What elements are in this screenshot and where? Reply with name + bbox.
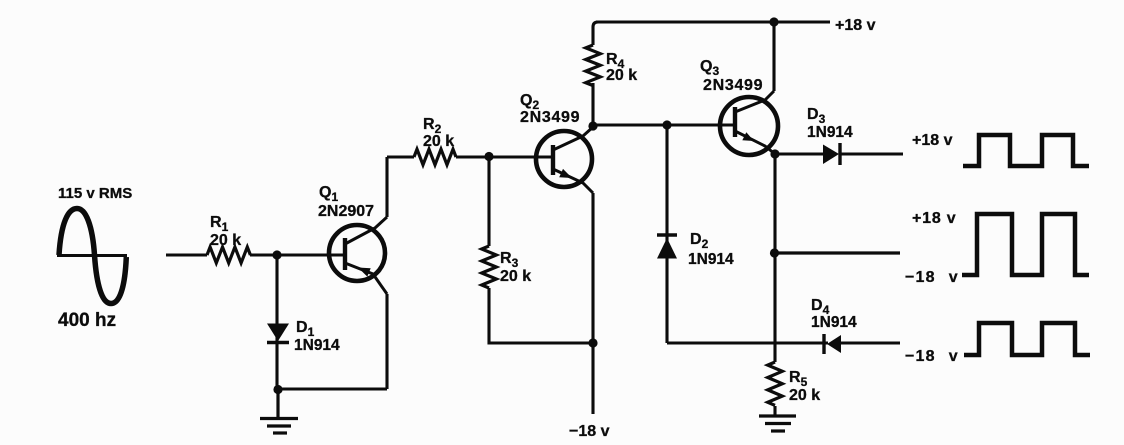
waveform output 3 — [964, 323, 1090, 355]
wire R1 to node A — [250, 253, 277, 256]
wire node G down to R5 — [773, 253, 776, 362]
ground symbol below R5 — [759, 416, 796, 431]
svg-text:20 k: 20 k — [500, 268, 531, 285]
transistor Q1 (2N2907 PNP) — [329, 217, 387, 294]
svg-text:2N3499: 2N3499 — [703, 77, 763, 94]
svg-text:20 k: 20 k — [789, 387, 820, 404]
svg-text:20 k: 20 k — [423, 133, 454, 150]
svg-text:2N3499: 2N3499 — [520, 109, 580, 126]
diode D3 — [823, 143, 840, 165]
node D junction dot — [588, 121, 597, 130]
rail junction dot — [769, 17, 778, 26]
wire node B to Q2 base — [489, 155, 553, 158]
node G junction dot (middle output) — [770, 248, 779, 257]
AC source sine wave symbol — [57, 209, 127, 304]
wire Q1 emitter to ground node — [278, 387, 387, 390]
resistor R1 — [207, 247, 250, 263]
resistor R2 — [414, 149, 456, 165]
node E junction dot — [662, 120, 671, 129]
+18v rail wire — [596, 20, 830, 23]
node B junction dot — [484, 152, 493, 161]
resistor R4 — [586, 45, 601, 86]
svg-text:1N914: 1N914 — [811, 314, 857, 331]
svg-text:1N914: 1N914 — [807, 124, 853, 141]
svg-text:D2: D2 — [690, 231, 709, 251]
svg-text:+18 v: +18 v — [835, 17, 876, 34]
resistor R5 — [768, 362, 783, 405]
svg-text:20 k: 20 k — [210, 232, 241, 249]
wire node E down through D2 — [665, 125, 668, 343]
svg-text:+18 v: +18 v — [912, 210, 956, 227]
wire Q1 collector riser — [385, 157, 388, 217]
ground symbol below D1 — [260, 390, 298, 434]
transistor Q3 (2N3499 NPN) — [720, 91, 778, 155]
wire R4 to node D — [591, 83, 594, 126]
diode D1 — [267, 324, 289, 343]
wire Q3 collector to rail — [772, 22, 775, 91]
svg-text:+18 v: +18 v — [912, 132, 953, 149]
waveform output 2 — [962, 214, 1089, 275]
wire riser to R2 — [387, 155, 414, 158]
wire node B down to R3 — [487, 156, 490, 246]
wire R5 to ground — [773, 406, 776, 415]
wire D2 bottom to D4 — [667, 341, 828, 344]
svg-text:−18 v: −18 v — [569, 423, 610, 440]
wire node F down to node G — [773, 154, 776, 253]
wire R3 to node C — [489, 288, 593, 343]
wire D4 to output 3 — [841, 341, 900, 344]
wire output 2 — [775, 251, 900, 254]
transistor Q2 (2N3499 NPN) — [536, 127, 593, 193]
wire node A to Q1 base — [277, 253, 345, 256]
svg-text:R3: R3 — [500, 250, 519, 270]
svg-text:R5: R5 — [789, 369, 808, 389]
svg-text:D1: D1 — [296, 319, 315, 339]
wire input to R1 — [166, 253, 207, 256]
diode D2 — [657, 235, 677, 259]
resistor R3 — [482, 246, 497, 288]
svg-text:Q1: Q1 — [319, 184, 338, 204]
svg-text:R1: R1 — [210, 214, 229, 234]
wire Q1 emitter down — [385, 294, 388, 389]
wire D3 to output 1 — [841, 152, 903, 155]
wire node D to Q3 base — [593, 123, 735, 126]
node C junction dot — [588, 338, 597, 347]
svg-text:20 k: 20 k — [606, 67, 637, 84]
svg-text:Q3: Q3 — [700, 58, 719, 78]
waveform output 1 — [963, 135, 1089, 166]
ground node junction dot — [273, 385, 282, 394]
wire node F to D3 — [775, 152, 823, 155]
wire node A through D1 to ground node — [275, 255, 278, 389]
svg-text:1N914: 1N914 — [294, 337, 340, 354]
svg-text:115 v RMS: 115 v RMS — [58, 185, 132, 202]
wire R2 to node B — [456, 155, 489, 158]
svg-text:1N914: 1N914 — [688, 251, 734, 268]
svg-text:−18v: −18v — [905, 348, 959, 365]
diode D4 — [824, 334, 841, 354]
svg-text:2N2907: 2N2907 — [318, 203, 374, 220]
node F junction dot (Q3 emitter) — [770, 149, 779, 158]
wire Q2 emitter down to -18v — [591, 193, 594, 414]
node A junction dot — [272, 250, 281, 259]
wire rail corner down to R4 — [593, 22, 598, 45]
svg-text:−18v: −18v — [905, 269, 959, 286]
svg-text:D3: D3 — [807, 106, 826, 126]
svg-text:400 hz: 400 hz — [58, 310, 116, 331]
